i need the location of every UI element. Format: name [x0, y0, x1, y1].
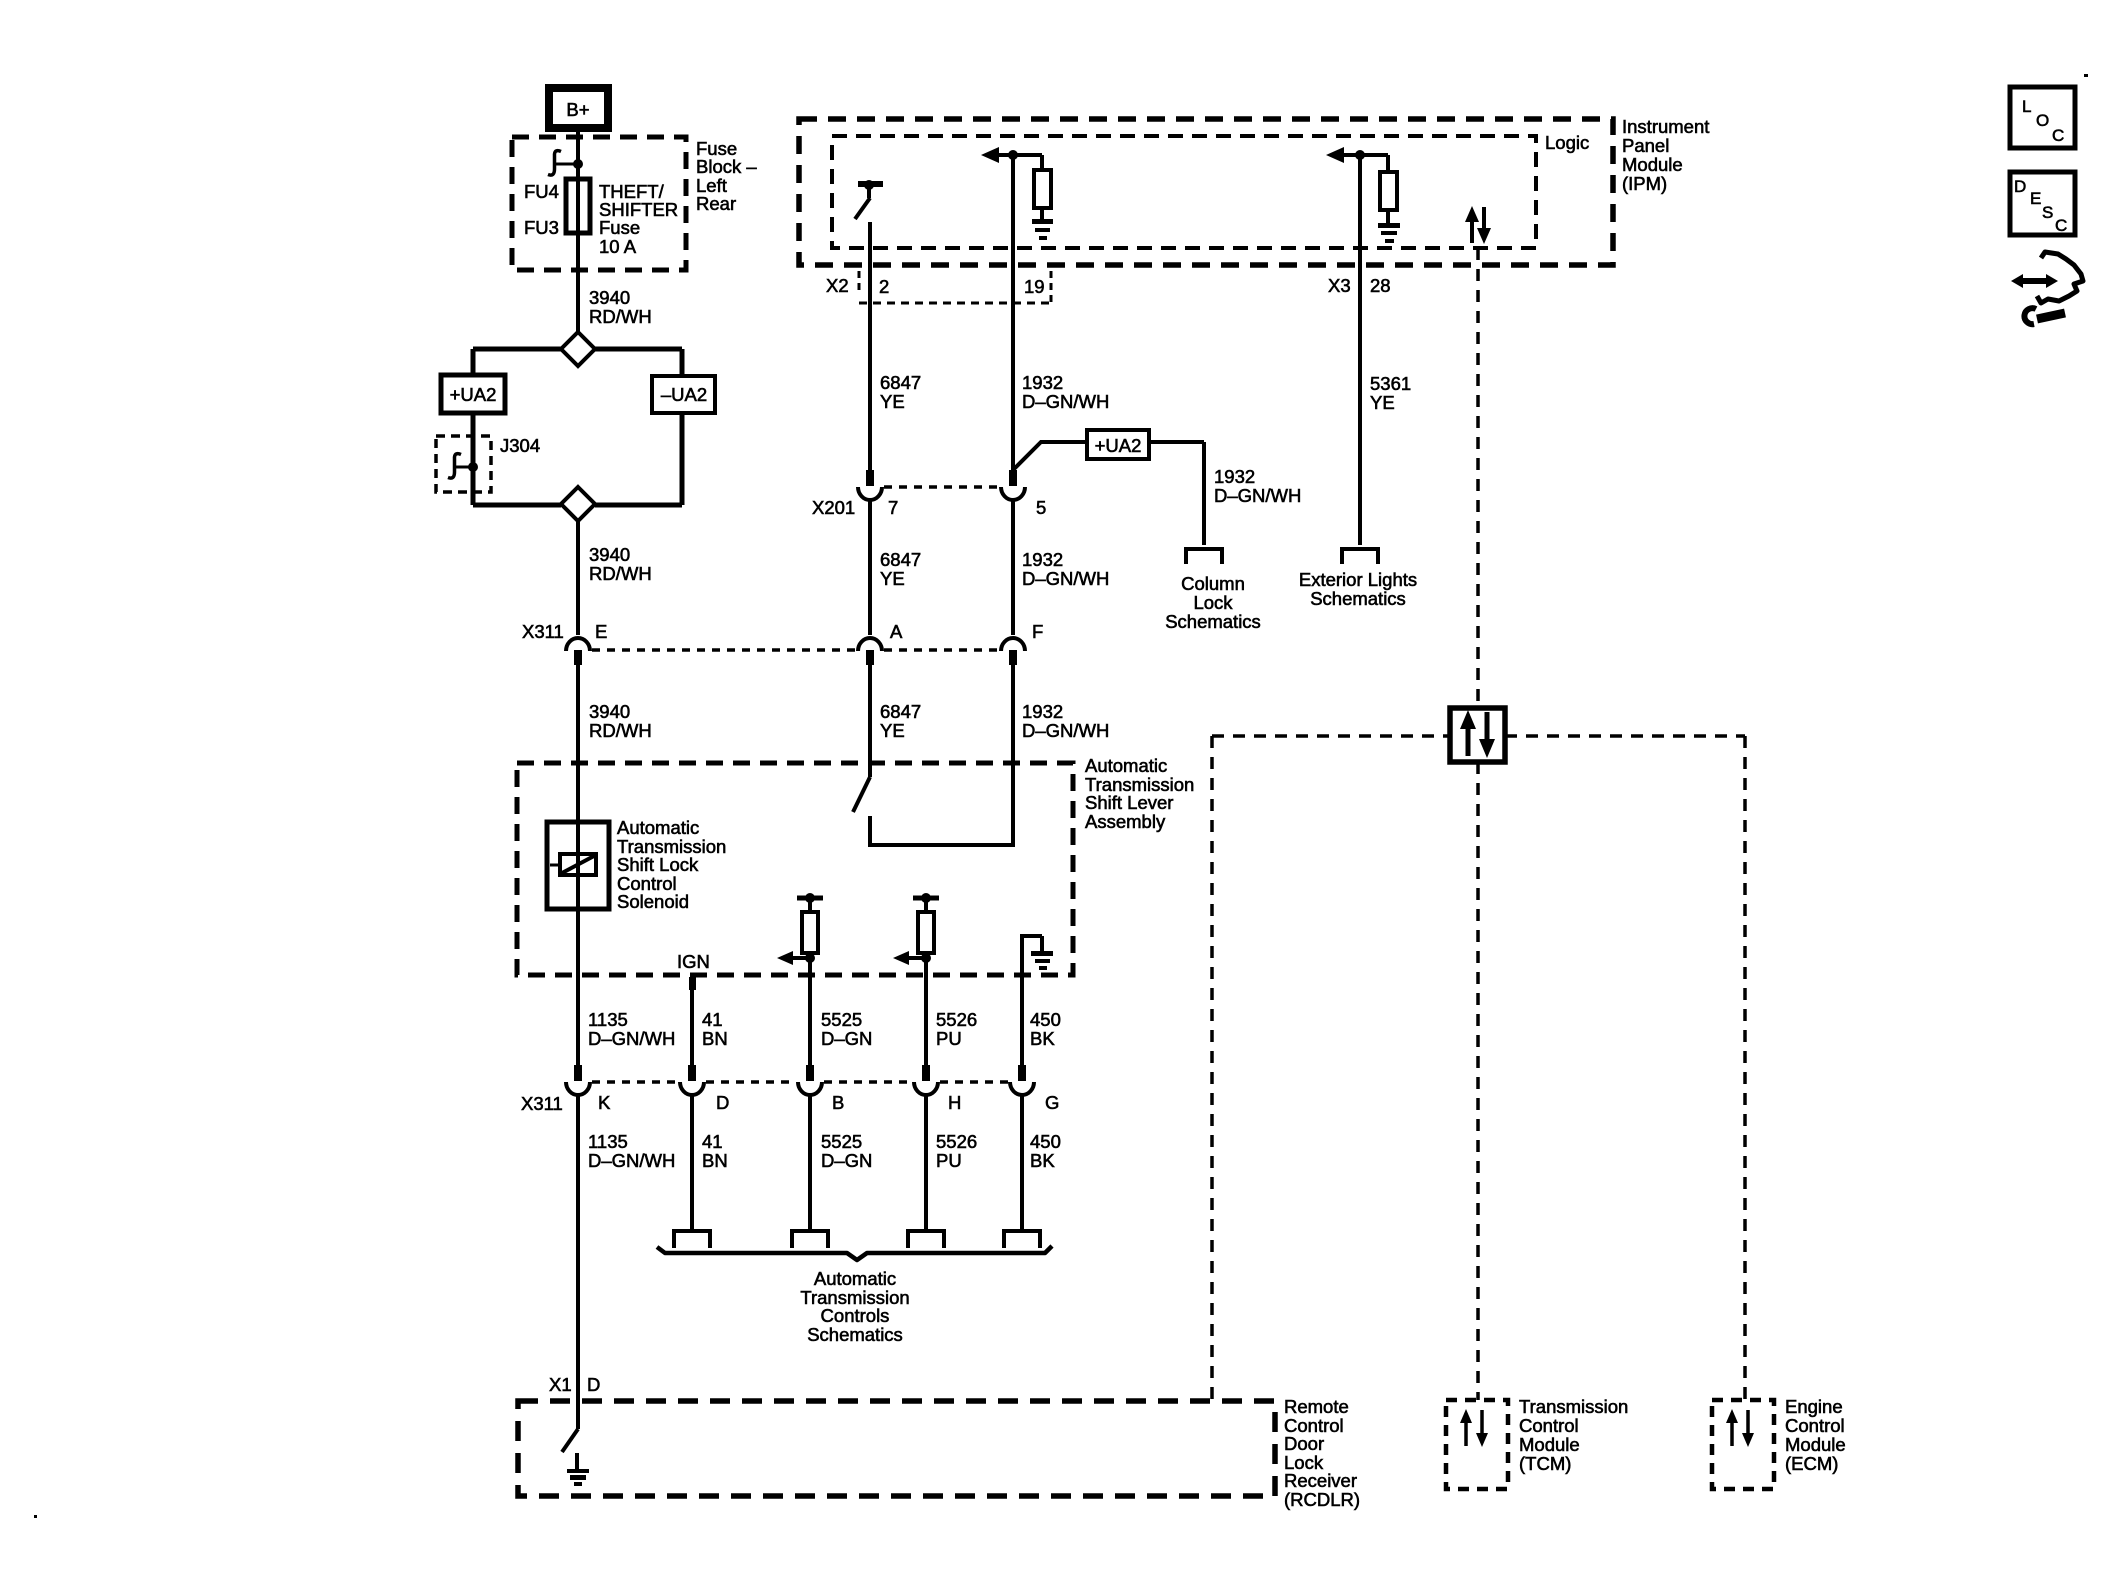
svg-text:Schematics: Schematics: [1310, 588, 1406, 609]
off-page connector to Exterior Lights: [1342, 549, 1378, 564]
label Engine Control Module (ECM): [1785, 1396, 1846, 1474]
svg-text:Schematics: Schematics: [1165, 611, 1261, 632]
svg-text:Automatic: Automatic: [617, 817, 699, 838]
svg-text:D–GN/WH: D–GN/WH: [1022, 391, 1109, 412]
off-page connector B: [792, 1231, 828, 1248]
speck bottom left: [34, 1515, 37, 1518]
wire label 5525 D-GN: [821, 1009, 872, 1049]
svg-text:3940: 3940: [589, 544, 630, 565]
svg-text:E: E: [2030, 189, 2041, 208]
wire label 6847 YE: [880, 701, 921, 741]
svg-text:450: 450: [1030, 1009, 1061, 1030]
svg-text:5361: 5361: [1370, 373, 1411, 394]
wire label 41 BN: [702, 1131, 728, 1171]
svg-text:H: H: [948, 1092, 961, 1113]
svg-text:1135: 1135: [588, 1009, 628, 1030]
wire 3940/1135 through solenoid to X311 K: [576, 665, 580, 1065]
LOC legend box: [2010, 87, 2075, 148]
battery feed B+ terminal: [549, 88, 608, 128]
RCDLR internal switch blade: [562, 1429, 578, 1452]
svg-text:IGN: IGN: [677, 951, 710, 972]
svg-text:PU: PU: [936, 1150, 962, 1171]
label Transmission Control Module (TCM): [1519, 1396, 1628, 1474]
IPM outer dashed box: [799, 119, 1613, 265]
svg-text:(ECM): (ECM): [1785, 1453, 1838, 1474]
wire label 6847 YE: [880, 372, 921, 412]
svg-text:RD/WH: RD/WH: [589, 306, 652, 327]
serial data junction box with arrows: [1450, 708, 1505, 762]
wire 450 X311 G down: [1020, 1096, 1024, 1229]
svg-text:Solenoid: Solenoid: [617, 891, 689, 912]
svg-text:(RCDLR): (RCDLR): [1284, 1489, 1360, 1510]
svg-text:6847: 6847: [880, 549, 921, 570]
svg-text:A: A: [890, 621, 903, 642]
svg-text:5526: 5526: [936, 1131, 977, 1152]
svg-text:(IPM): (IPM): [1622, 173, 1667, 194]
svg-text:D: D: [2014, 177, 2026, 196]
assembly resistor B column: [777, 893, 823, 1065]
label Fuse Block - Left Rear: [696, 138, 757, 214]
svg-text:PU: PU: [936, 1028, 962, 1049]
svg-text:YE: YE: [880, 568, 905, 589]
wire tap to +UA2 node: [1013, 442, 1204, 545]
svg-text:X311: X311: [521, 1093, 563, 1114]
svg-text:450: 450: [1030, 1131, 1061, 1152]
electrical repair icon: [2011, 252, 2083, 324]
svg-text:Transmission: Transmission: [1519, 1396, 1628, 1417]
assembly internal ground G column: [1022, 936, 1053, 1065]
node -UA2: [652, 376, 715, 413]
svg-text:X1: X1: [549, 1374, 572, 1395]
svg-text:D–GN/WH: D–GN/WH: [1022, 720, 1109, 741]
label Automatic Transmission Controls Schematics: [800, 1268, 909, 1345]
wire label 3940 RD/WH: [589, 701, 652, 741]
serial data dashed wire IPM to junction: [1476, 248, 1480, 707]
IPM pull-up resistor left with arrow: [981, 147, 1053, 240]
svg-text:Column: Column: [1181, 573, 1245, 594]
svg-text:BN: BN: [702, 1150, 728, 1171]
svg-text:YE: YE: [880, 720, 905, 741]
connector X201 pin 7 terminal: [858, 470, 882, 500]
svg-text:G: G: [1045, 1092, 1059, 1113]
node +UA2: [441, 375, 505, 413]
underbrace: [657, 1246, 1052, 1260]
speck top right: [2084, 74, 2088, 77]
connector X311 pin A terminal: [858, 638, 882, 665]
wire 1932 X201 pin5 to X311 F: [1011, 500, 1015, 635]
svg-text:Control: Control: [1785, 1415, 1845, 1436]
wire label 1135 D-GN/WH: [588, 1131, 675, 1171]
serial data dashed wire junction to branches: [1212, 734, 1745, 738]
wire 41 IGN to X311 D: [690, 975, 694, 1065]
svg-text:+UA2: +UA2: [1095, 435, 1142, 456]
wire label 5361 YE: [1370, 373, 1411, 413]
wire splice to -UA2 branch: [595, 349, 682, 376]
connector X311 pin B terminal: [798, 1065, 822, 1095]
connector X311 pin F terminal: [1001, 638, 1025, 665]
off-page connector to Column Lock: [1186, 549, 1222, 564]
svg-text:Rear: Rear: [696, 193, 736, 214]
svg-text:D: D: [587, 1374, 600, 1395]
svg-text:3940: 3940: [589, 701, 630, 722]
label Instrument Panel Module (IPM): [1622, 116, 1709, 194]
label Automatic Transmission Shift Lever Assembly: [1085, 755, 1194, 832]
svg-text:Module: Module: [1785, 1434, 1846, 1455]
connector X311 dashed line: [592, 648, 999, 652]
serial data dashed wire to RCDLR: [1210, 736, 1214, 1401]
svg-text:D: D: [716, 1092, 729, 1113]
svg-text:BK: BK: [1030, 1028, 1055, 1049]
svg-text:Control: Control: [1519, 1415, 1579, 1436]
DESC legend box: [2010, 172, 2075, 235]
serial data dashed wire to ECM: [1743, 736, 1747, 1400]
svg-text:6847: 6847: [880, 701, 921, 722]
wire B+ to splice diamond: [576, 129, 580, 332]
svg-text:D–GN/WH: D–GN/WH: [1022, 568, 1109, 589]
connector X311 pin D terminal: [680, 1065, 704, 1095]
wire 1135 X311 K down to RCDLR: [576, 1096, 580, 1429]
wire 41 X311 D down: [690, 1096, 694, 1229]
svg-text:Panel: Panel: [1622, 135, 1669, 156]
svg-text:Automatic: Automatic: [814, 1268, 896, 1289]
wire 6847 X201 pin7 to X311 A: [868, 500, 872, 635]
svg-text:Door: Door: [1284, 1433, 1324, 1454]
svg-text:Instrument: Instrument: [1622, 116, 1709, 137]
svg-text:1932: 1932: [1022, 549, 1063, 570]
svg-text:–UA2: –UA2: [661, 384, 707, 405]
off-page connector D: [674, 1231, 710, 1248]
ground chassis in RCDLR: [567, 1453, 589, 1486]
serial data dashed wire junction to TCM: [1476, 762, 1480, 1400]
TCM dashed box: [1446, 1400, 1508, 1489]
IPM logic inner dashed box: [832, 136, 1536, 248]
solenoid Automatic Transmission Shift Lock Control: [547, 822, 609, 909]
wire splice to +UA2 branch: [473, 349, 561, 375]
wire X311 A to park switch: [868, 665, 872, 777]
ECM dashed box: [1712, 1400, 1774, 1489]
IPM pull-up resistor right with arrow: [1326, 147, 1400, 243]
connector X311 dashed line: [592, 1080, 1008, 1084]
svg-text:Lock: Lock: [1193, 592, 1233, 613]
svg-text:Receiver: Receiver: [1284, 1470, 1357, 1491]
svg-text:1135: 1135: [588, 1131, 628, 1152]
wire label 5526 PU: [936, 1009, 977, 1049]
wire IPM pin28 down: [1358, 155, 1362, 545]
wire IPM pin19 down: [1011, 155, 1015, 470]
wire 5525 X311 B down: [808, 1096, 812, 1229]
IPM internal switch: [855, 180, 883, 219]
svg-text:+UA2: +UA2: [450, 384, 497, 405]
svg-text:Schematics: Schematics: [807, 1324, 903, 1345]
wire 5526 X311 H down: [924, 1096, 928, 1229]
connector X311 pin H terminal: [914, 1065, 938, 1095]
svg-text:10 A: 10 A: [599, 236, 637, 257]
svg-text:YE: YE: [1370, 392, 1395, 413]
bus tap symbol in fuse block: [548, 151, 583, 175]
svg-text:X311: X311: [522, 621, 564, 642]
wire park switch contact to X311 F: [870, 665, 1013, 845]
label Automatic Transmission Shift Lock Control Solenoid: [617, 817, 726, 912]
wire label 1932 D-GN/WH: [1214, 466, 1301, 506]
connector X311 pin E terminal: [566, 638, 590, 665]
svg-text:Block –: Block –: [696, 156, 757, 177]
svg-text:RD/WH: RD/WH: [589, 563, 652, 584]
svg-text:2: 2: [879, 276, 889, 297]
svg-text:Assembly: Assembly: [1085, 811, 1166, 832]
wire label 1932 D-GN/WH: [1022, 549, 1109, 589]
label Remote Control Door Lock Receiver (RCDLR): [1284, 1396, 1360, 1510]
wire IPM pin2 down: [868, 222, 872, 470]
svg-text:28: 28: [1370, 275, 1391, 296]
svg-text:Automatic: Automatic: [1085, 755, 1167, 776]
svg-text:O: O: [2036, 111, 2049, 130]
svg-text:41: 41: [702, 1131, 723, 1152]
wire label 1932 D-GN/WH: [1022, 372, 1109, 412]
IPM serial data arrows: [1465, 206, 1491, 244]
svg-text:E: E: [595, 621, 607, 642]
wire +UA2 through J304 to bottom splice: [473, 413, 561, 505]
svg-text:C: C: [2052, 126, 2064, 145]
off-page connector H: [908, 1231, 944, 1248]
wire label 450 BK: [1030, 1131, 1061, 1171]
svg-text:1932: 1932: [1022, 701, 1063, 722]
wire -UA2 to bottom splice: [595, 413, 682, 505]
splice J304 dashed box: [436, 436, 491, 492]
svg-text:Engine: Engine: [1785, 1396, 1843, 1417]
label Column Lock Schematics: [1165, 573, 1261, 632]
label Exterior Lights Schematics: [1299, 569, 1417, 609]
off-page connector G: [1004, 1231, 1040, 1248]
fuse block dashed box Fuse Block - Left Rear: [512, 137, 686, 270]
svg-text:J304: J304: [500, 435, 540, 456]
RCDLR dashed box: [518, 1401, 1275, 1496]
svg-text:D–GN/WH: D–GN/WH: [588, 1150, 675, 1171]
svg-text:X2: X2: [826, 275, 849, 296]
svg-text:5525: 5525: [821, 1009, 862, 1030]
svg-text:5525: 5525: [821, 1131, 862, 1152]
svg-text:K: K: [598, 1092, 611, 1113]
shift lever assembly dashed box: [517, 763, 1073, 975]
wire label 5526 PU: [936, 1131, 977, 1171]
connector X311 pin K terminal: [566, 1065, 590, 1095]
svg-text:Module: Module: [1519, 1434, 1580, 1455]
svg-text:Module: Module: [1622, 154, 1683, 175]
splice diamond top: [561, 332, 595, 366]
svg-text:19: 19: [1024, 276, 1045, 297]
svg-text:X3: X3: [1328, 275, 1351, 296]
svg-text:Logic: Logic: [1545, 132, 1589, 153]
connector X201 dashed line: [884, 485, 999, 489]
svg-text:B: B: [832, 1092, 844, 1113]
splice diamond bottom: [561, 487, 595, 521]
wire label 3940 RD/WH: [589, 544, 652, 584]
svg-text:C: C: [2055, 216, 2067, 235]
fuse FU4/FU3 THEFT/SHIFTER Fuse 10 A: [566, 179, 590, 233]
J304 tap symbol: [448, 454, 478, 478]
wire label 450 BK: [1030, 1009, 1061, 1049]
svg-text:(TCM): (TCM): [1519, 1453, 1571, 1474]
connector X2 dashed outline: [859, 271, 1051, 303]
svg-text:Shift Lock: Shift Lock: [617, 854, 699, 875]
svg-text:Controls: Controls: [821, 1305, 890, 1326]
wire label 1932 D-GN/WH: [1022, 701, 1109, 741]
wire label 6847 YE: [880, 549, 921, 589]
svg-text:YE: YE: [880, 391, 905, 412]
svg-text:7: 7: [888, 497, 898, 518]
wire label 1135 D-GN/WH: [588, 1009, 675, 1049]
svg-text:B+: B+: [566, 99, 589, 120]
svg-text:S: S: [2042, 203, 2053, 222]
connector X311 pin G terminal: [1010, 1065, 1034, 1095]
svg-text:D–GN/WH: D–GN/WH: [1214, 485, 1301, 506]
svg-text:D–GN/WH: D–GN/WH: [588, 1028, 675, 1049]
svg-text:Shift Lever: Shift Lever: [1085, 792, 1173, 813]
svg-text:D–GN: D–GN: [821, 1028, 872, 1049]
connector X201 pin 5 terminal: [1001, 470, 1025, 500]
svg-text:6847: 6847: [880, 372, 921, 393]
svg-text:BN: BN: [702, 1028, 728, 1049]
svg-text:1932: 1932: [1214, 466, 1255, 487]
svg-text:FU3: FU3: [524, 217, 559, 238]
svg-text:Remote: Remote: [1284, 1396, 1349, 1417]
svg-text:5526: 5526: [936, 1009, 977, 1030]
assembly resistor H column: [893, 893, 939, 1065]
svg-text:BK: BK: [1030, 1150, 1055, 1171]
svg-text:RD/WH: RD/WH: [589, 720, 652, 741]
svg-text:1932: 1932: [1022, 372, 1063, 393]
svg-text:FU4: FU4: [524, 181, 559, 202]
svg-text:F: F: [1032, 621, 1043, 642]
svg-text:3940: 3940: [589, 287, 630, 308]
wire label 5525 D-GN: [821, 1131, 872, 1171]
wire label 41 BN: [702, 1009, 728, 1049]
park switch blade open: [853, 777, 870, 812]
svg-text:Exterior Lights: Exterior Lights: [1299, 569, 1417, 590]
wire label 3940 RD/WH: [589, 287, 652, 327]
node +UA2: [1087, 430, 1149, 459]
wire 3940 X311 E to solenoid: [576, 665, 580, 822]
svg-text:L: L: [2022, 97, 2031, 116]
svg-text:D–GN: D–GN: [821, 1150, 872, 1171]
fuse value label THEFT/SHIFTER Fuse 10 A: [599, 181, 678, 257]
wire splice to X311 E: [576, 521, 580, 635]
svg-text:X201: X201: [812, 497, 855, 518]
svg-text:5: 5: [1036, 497, 1046, 518]
svg-text:Fuse: Fuse: [599, 217, 640, 238]
svg-text:41: 41: [702, 1009, 723, 1030]
